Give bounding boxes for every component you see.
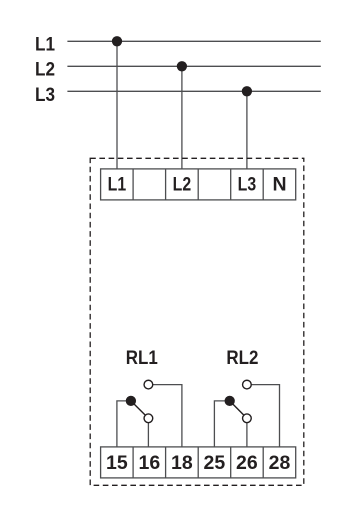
switch arm RL1 xyxy=(131,401,149,418)
NO contact circle RL2 xyxy=(243,380,252,389)
terminal strip top xyxy=(101,169,296,200)
svg-text:16: 16 xyxy=(139,452,161,474)
svg-text:L3: L3 xyxy=(35,85,55,106)
svg-text:N: N xyxy=(272,174,286,196)
svg-text:RL1: RL1 xyxy=(126,347,158,369)
common pole dot RL1 xyxy=(126,396,136,406)
NO contact circle RL1 xyxy=(144,380,153,389)
common pole dot RL2 xyxy=(225,396,235,406)
wire NC contact to terminal 26 xyxy=(246,418,248,447)
wire NO contact to terminal 28 xyxy=(247,385,280,448)
wire L2 horizontal xyxy=(67,65,320,67)
svg-text:L1: L1 xyxy=(35,35,55,56)
switch arm RL2 xyxy=(230,401,247,418)
wire L1 horizontal xyxy=(67,40,320,42)
wire drop from L3 junction to terminal L3 xyxy=(246,91,248,169)
svg-text:L2: L2 xyxy=(173,174,192,196)
wire L3 horizontal xyxy=(67,90,320,92)
wire common from terminal 25 xyxy=(214,401,229,447)
relay RL1 xyxy=(117,380,182,447)
svg-text:26: 26 xyxy=(236,452,258,474)
node junction dot on L2 xyxy=(177,61,187,71)
NC contact circle RL1 xyxy=(144,414,153,423)
wire NO contact to terminal 18 xyxy=(148,385,182,448)
svg-text:L2: L2 xyxy=(35,60,55,81)
node junction dot on L3 xyxy=(242,86,252,96)
node junction dot on L1 xyxy=(112,36,122,46)
svg-text:L3: L3 xyxy=(238,174,257,196)
svg-text:28: 28 xyxy=(269,452,291,474)
NC contact circle RL2 xyxy=(243,414,252,423)
svg-text:18: 18 xyxy=(171,452,193,474)
wire NC contact to terminal 16 xyxy=(147,418,149,447)
wire drop from L1 junction to terminal L1 xyxy=(116,41,118,169)
terminal strip bottom xyxy=(101,447,296,478)
wire drop from L2 junction to terminal L2 xyxy=(181,66,183,169)
svg-text:L1: L1 xyxy=(108,174,127,196)
svg-text:RL2: RL2 xyxy=(226,347,258,369)
wire common from terminal 15 xyxy=(117,401,131,447)
device outline (dashed box) xyxy=(90,158,304,485)
svg-text:25: 25 xyxy=(204,452,226,474)
svg-text:15: 15 xyxy=(106,452,128,474)
relay RL2 xyxy=(214,380,279,447)
